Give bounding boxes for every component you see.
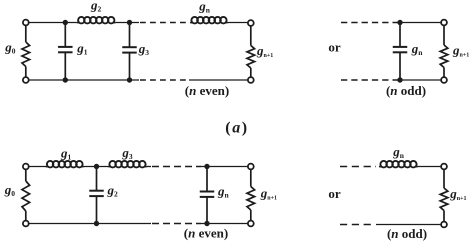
svg-text:(n even): (n even) xyxy=(184,226,228,241)
svg-text:(a): (a) xyxy=(225,120,248,137)
svg-text:(n even): (n even) xyxy=(185,83,229,98)
svg-text:(n odd): (n odd) xyxy=(386,83,426,98)
svg-text:or: or xyxy=(328,39,341,54)
svg-text:or: or xyxy=(328,186,341,201)
svg-text:(n odd): (n odd) xyxy=(387,226,427,241)
